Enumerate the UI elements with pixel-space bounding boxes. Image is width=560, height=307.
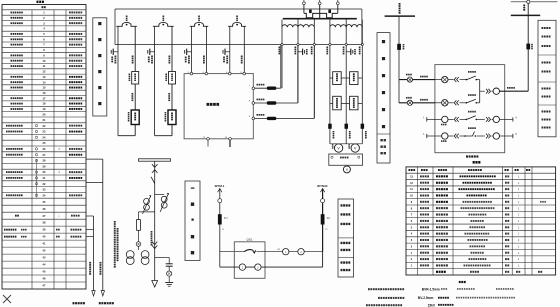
terminal table header mark (42, 6, 44, 8)
PT fuse link left (303, 5, 305, 14)
voltage link wire 3 (255, 117, 315, 119)
right destination label column (538, 20, 556, 137)
box top terminal 4 (243, 72, 246, 75)
protection device box (184, 74, 253, 139)
left vertical wire (114, 9, 116, 45)
secondary fuse b (345, 124, 349, 129)
WYM.N terminal (321, 199, 325, 203)
svg-text:BV-2.5mm: BV-2.5mm (418, 296, 434, 300)
QS1 top row (220, 251, 244, 253)
middle notes line 3 (366, 304, 368, 306)
notes heading (459, 281, 461, 283)
WYM1 wire (219, 189, 221, 268)
CT TA1 ground (113, 51, 118, 53)
box bottom terminal 14 (229, 138, 232, 141)
PT primary neutral (319, 5, 321, 19)
single-line label box (185, 181, 200, 261)
PT primary terminal C (337, 0, 339, 2)
CT TA2 wire labels (151, 56, 153, 58)
signal destination label box (338, 199, 354, 277)
fuse FU2 (321, 214, 325, 224)
svg-text:WYM.N: WYM.N (317, 184, 327, 188)
vertical link 3 (313, 45, 315, 119)
wire label loop 2 (168, 93, 170, 95)
WYM.N wire (322, 189, 324, 252)
CT right circles (161, 196, 167, 202)
output to trip (480, 90, 485, 92)
fuse FU1 (218, 214, 222, 224)
meter element PJ2 (168, 110, 176, 125)
CT TA3 top label (198, 16, 200, 18)
rung 4 (426, 134, 428, 138)
svg-text:15kV: 15kV (428, 303, 436, 307)
ground symbol (165, 282, 173, 284)
control busbar label (399, 3, 401, 5)
incoming terminal (527, 0, 530, 3)
box top terminal 3 (229, 72, 232, 75)
voltage relay row 1 (330, 77, 362, 79)
rung 2 relay K2 (435, 102, 442, 104)
voltmeter PV3 (343, 166, 350, 173)
rung merge bracket (479, 80, 481, 103)
QS1 top row out (257, 251, 323, 253)
WYM1 terminal (218, 199, 222, 203)
box top terminal 1 (190, 72, 193, 75)
voltage relay row 2 (330, 102, 362, 104)
10kV busbar (139, 159, 171, 161)
table right stubs (86, 158, 103, 160)
CT TA1 wire labels (115, 56, 117, 58)
box right terminal 1 (252, 87, 255, 90)
PT fuse branch (138, 212, 140, 220)
arrow to DC panel (101, 291, 104, 296)
secondary fuse c (361, 124, 365, 129)
CT left circles (144, 198, 150, 204)
incoming line (511, 1, 558, 3)
CT TA4 left secondary wire (229, 26, 231, 73)
X mark bottom left (3, 295, 11, 303)
cable wire to DC panel (102, 159, 104, 291)
CT loop 1 bottom join (118, 135, 135, 137)
PT primary mark (136, 242, 141, 247)
voltmeter PV1 (334, 144, 342, 152)
CT TA2 primary bracket (153, 22, 174, 26)
box right terminal 2 (252, 102, 255, 105)
CT TA4 primary bracket (228, 22, 246, 26)
CT TA4 right secondary wire (243, 26, 245, 73)
wire label loop 1 (132, 93, 134, 95)
CT TA2 left secondary wire (154, 26, 156, 135)
disconnector (151, 177, 155, 184)
control busbar (385, 15, 415, 17)
arrester blob 2 (267, 101, 277, 104)
test block P1 (132, 72, 139, 85)
svg-text:QS1: QS1 (246, 237, 252, 241)
CT TA4 wire labels (226, 56, 228, 58)
arrow to battery panel (92, 291, 95, 296)
box bottom terminal 12 (207, 138, 210, 141)
PT primary terminal B (319, 0, 321, 2)
middle vertical label box (377, 33, 390, 163)
surge capacitor branch (155, 256, 170, 258)
left vertical label box (93, 18, 107, 116)
branch to CT left (139, 211, 155, 213)
svg-text:BVR-1.5mm: BVR-1.5mm (422, 288, 440, 292)
middle notes line 2 (378, 297, 380, 299)
CT TA3 wire labels (188, 56, 190, 58)
CT TA4 ground (225, 51, 230, 53)
feeder down arrow mark (152, 242, 157, 245)
middle notes line 1 (368, 288, 370, 290)
feeder end arrow (152, 281, 158, 288)
vertical link 1 (280, 45, 282, 89)
rung 2 feed (399, 102, 435, 104)
CT TA1 right secondary wire (134, 26, 136, 135)
CT TA2 right secondary wire (171, 26, 173, 135)
connector XB1 (407, 77, 412, 82)
label to battery panel (73, 302, 75, 304)
terminal circle 4 (298, 249, 304, 255)
CT TA2 ground (150, 51, 155, 53)
control fuse FU1 (397, 44, 401, 50)
35kV label (523, 5, 525, 7)
meter element PJ1 (131, 110, 139, 125)
terminal circle 1 (239, 264, 245, 270)
CT TA3 primary bracket (190, 22, 208, 26)
svg-text:WYM.1: WYM.1 (215, 184, 225, 188)
rung 1 relay K1 (435, 79, 442, 81)
control supply wire (398, 16, 400, 103)
box top terminal 2 (205, 72, 208, 75)
material table title (473, 161, 475, 164)
CT TA3 ground (187, 51, 192, 53)
voltmeter PV2 (351, 144, 359, 152)
top horizontal wire (115, 8, 362, 10)
PT secondary vertical wires (281, 20, 283, 89)
terminal table title (37, 1, 39, 3)
35kV busbar (511, 14, 540, 16)
box right terminal 3 (252, 117, 255, 120)
right vertical wire of top loop (361, 9, 363, 19)
voltage link wire 1 (255, 87, 281, 89)
relay circuit box (435, 65, 505, 153)
CT TA1 top label (126, 16, 128, 18)
QS1 bottom row (220, 266, 323, 268)
CT loop 2 bottom join (155, 135, 172, 137)
voltage link wire 2 (255, 102, 298, 104)
svg-text:FU: FU (224, 216, 228, 220)
vertical link 2 (297, 45, 299, 104)
terminal chain line (36, 159, 38, 198)
second horizontal wire (115, 44, 362, 46)
35kV fuse (526, 44, 530, 50)
material table (366, 167, 556, 307)
PT secondary ground dn (346, 51, 351, 53)
branch to CT right (155, 194, 165, 196)
arrester blob 1 (267, 87, 277, 90)
35kV drop wire (527, 3, 529, 91)
CT TA1 primary bracket (116, 22, 137, 26)
PT busbar (283, 18, 357, 20)
PT primary terminal A (303, 0, 305, 2)
CT TA1 left secondary wire (117, 26, 119, 135)
svg-text:FU: FU (327, 216, 331, 220)
CT TA4 top label (236, 16, 238, 18)
QS1 contact (244, 250, 252, 252)
rung 1 feed (399, 79, 435, 81)
voltage transformer circles (126, 251, 134, 259)
terminal circle 2 (255, 264, 261, 270)
test block P2 (169, 72, 176, 85)
secondary fuse a (328, 124, 332, 129)
right riser (322, 252, 324, 267)
PT winding coils (282, 25, 298, 28)
drawout contacts (152, 164, 158, 167)
relay box caption (466, 155, 468, 157)
voltmeter switch box (329, 154, 363, 165)
protection device text (207, 103, 210, 106)
CT TA3 right secondary wire (206, 26, 208, 73)
rung 3 (426, 117, 428, 121)
PT label (151, 231, 153, 233)
cable wire to battery panel (93, 216, 95, 291)
surge arrester (167, 271, 172, 276)
connector XB2 (407, 100, 412, 105)
CT TA2 top label (163, 16, 165, 18)
cable labels rotated (89, 262, 91, 264)
CT TA3 left secondary wire (191, 26, 193, 73)
terminal circle 3 (283, 249, 289, 255)
PT secondary ground n (298, 51, 303, 53)
terminal strip table (2, 5, 86, 290)
label to DC distribution panel (99, 302, 101, 304)
QS1 switch box (234, 242, 265, 278)
arrester blob 3 (267, 117, 277, 120)
link to meters (330, 143, 362, 145)
feeder line (154, 161, 156, 280)
